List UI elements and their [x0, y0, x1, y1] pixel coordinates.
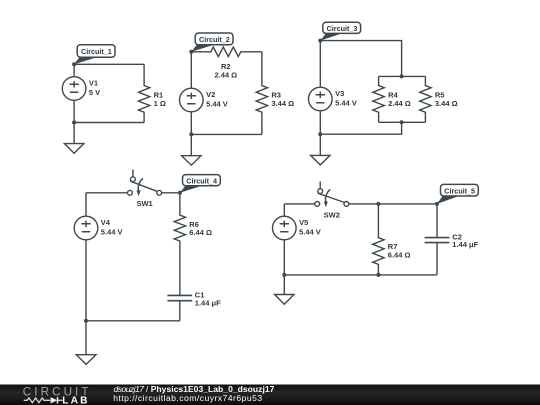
- footer bar: [0, 385, 540, 405]
- wire top C3: [320, 41, 401, 77]
- svg-text:5.44 V: 5.44 V: [299, 228, 321, 237]
- capacitor C1: [167, 295, 192, 320]
- wire V4 bottom lead: [85, 240, 87, 321]
- node (C4 switch output junction): [178, 191, 182, 195]
- voltage source V5: [273, 216, 297, 240]
- svg-text:1.44 μF: 1.44 μF: [195, 298, 221, 307]
- svg-text:Circuit_3: Circuit_3: [327, 24, 358, 33]
- voltage source V4: [74, 216, 98, 240]
- value label R1: [154, 91, 166, 108]
- node (C5 bottom-left junction): [282, 273, 286, 277]
- node (C5 switch-R7 junction): [376, 202, 380, 206]
- svg-text:2.44 Ω: 2.44 Ω: [388, 99, 411, 108]
- label Circuit_1: [74, 45, 115, 65]
- label Circuit_3: [320, 22, 360, 40]
- value label C2: [452, 232, 478, 249]
- svg-text:3.44 Ω: 3.44 Ω: [271, 99, 294, 108]
- svg-text:V5: V5: [299, 218, 308, 227]
- svg-text:5.44 V: 5.44 V: [101, 228, 123, 237]
- ground (circuit 4): [76, 321, 96, 365]
- voltage source V3: [309, 87, 333, 111]
- node (C4 bottom-left junction): [84, 319, 88, 323]
- value label V4: [101, 218, 123, 237]
- wire switch to C2 node: [349, 203, 437, 205]
- wire top-left C4: [86, 192, 127, 194]
- ground (circuit 5): [275, 275, 294, 304]
- value label R6: [189, 220, 212, 237]
- wire top C1: [74, 63, 144, 65]
- svg-text:http://circuitlab.com/cuyrx74r: http://circuitlab.com/cuyrx74r6pu53: [113, 393, 262, 403]
- value label R5: [435, 91, 458, 108]
- value label V2: [206, 90, 228, 109]
- wire bottom C1: [74, 122, 144, 124]
- value label R7: [388, 242, 411, 259]
- wire V2 bottom lead: [190, 112, 192, 135]
- wire switch to node C4: [162, 192, 180, 194]
- svg-text:6.44 Ω: 6.44 Ω: [388, 251, 411, 260]
- svg-text:LAB: LAB: [62, 395, 90, 405]
- svg-text:V2: V2: [206, 90, 215, 99]
- switch SW2: [315, 181, 349, 207]
- svg-text:2.44 Ω: 2.44 Ω: [214, 70, 237, 79]
- resistor R4: [373, 76, 384, 122]
- voltage source V1: [62, 77, 86, 101]
- svg-text:6.44 Ω: 6.44 Ω: [189, 228, 212, 237]
- node (C3 bottom-left junction): [318, 132, 322, 136]
- node (C3 parallel top junction): [400, 74, 404, 78]
- svg-text:3.44 Ω: 3.44 Ω: [435, 99, 458, 108]
- value label R2: [214, 62, 237, 80]
- ground (circuit 1): [64, 123, 83, 154]
- switch SW1: [127, 170, 161, 197]
- resistor R5: [420, 76, 431, 122]
- resistor R1: [138, 64, 149, 122]
- wire bottom C2ckt: [191, 133, 262, 135]
- node (C1 bottom-left junction): [72, 121, 76, 125]
- svg-text:5.44 V: 5.44 V: [335, 99, 357, 108]
- wire bottom C3: [320, 122, 401, 134]
- svg-text:5 V: 5 V: [89, 88, 100, 97]
- logo resistor zigzag: [24, 398, 51, 403]
- wire bottom C4: [86, 320, 180, 322]
- svg-text:SW2: SW2: [324, 210, 340, 219]
- label Circuit_4: [180, 175, 220, 193]
- voltage source V2: [180, 88, 204, 112]
- wire V1 top lead: [73, 64, 75, 76]
- capacitor C2: [425, 204, 450, 275]
- svg-text:Circuit_4: Circuit_4: [186, 176, 217, 185]
- node (C5 R7 bottom junction): [376, 273, 380, 277]
- value label R3: [271, 91, 294, 108]
- node (C1 top-left junction): [72, 62, 76, 66]
- value label R4: [388, 91, 411, 108]
- svg-text:V1: V1: [89, 79, 98, 88]
- resistor R7: [373, 204, 384, 275]
- svg-text:Circuit_1: Circuit_1: [81, 47, 112, 56]
- wire V3 bottom lead: [319, 111, 321, 135]
- wire top-left C5: [284, 203, 315, 205]
- resistor R6: [174, 193, 185, 296]
- wire bottom C5: [284, 274, 437, 276]
- svg-text:SW1: SW1: [136, 199, 152, 208]
- label Circuit_2: [191, 33, 233, 52]
- wire V4 top lead: [85, 193, 87, 217]
- svg-text:Circuit_5: Circuit_5: [444, 186, 475, 195]
- wire V2 top lead: [190, 52, 192, 88]
- node (C3 top-left junction): [318, 39, 322, 43]
- wire V3 top lead: [319, 41, 321, 88]
- label Circuit_5: [437, 184, 478, 204]
- svg-text:1.44 μF: 1.44 μF: [452, 240, 478, 249]
- node (C3 parallel bottom junction): [400, 120, 404, 124]
- svg-text:Circuit_2: Circuit_2: [199, 35, 230, 44]
- ground (circuit 3): [311, 134, 330, 165]
- wire V5 top lead: [283, 204, 285, 217]
- value label V5: [299, 218, 321, 237]
- value label C1: [195, 291, 221, 308]
- svg-text:V3: V3: [335, 89, 344, 98]
- wire V1 bottom lead: [73, 100, 75, 122]
- svg-text:1 Ω: 1 Ω: [154, 99, 166, 108]
- logo diode symbol: [51, 397, 63, 403]
- wire parallel top bar: [379, 75, 426, 77]
- node (C2 top-left junction): [189, 50, 193, 54]
- resistor R3: [256, 52, 267, 135]
- node (C2 bottom-left junction): [189, 132, 193, 136]
- svg-text:5.44 V: 5.44 V: [206, 100, 228, 109]
- value label V1: [89, 79, 100, 98]
- node (C5 C2 top junction): [435, 202, 439, 206]
- value label V3: [335, 89, 357, 108]
- wire parallel bottom bar: [379, 121, 426, 123]
- ground (circuit 2): [182, 134, 201, 165]
- svg-text:V4: V4: [101, 218, 111, 227]
- resistor R2: [191, 47, 262, 57]
- wire V5 bottom lead: [283, 240, 285, 275]
